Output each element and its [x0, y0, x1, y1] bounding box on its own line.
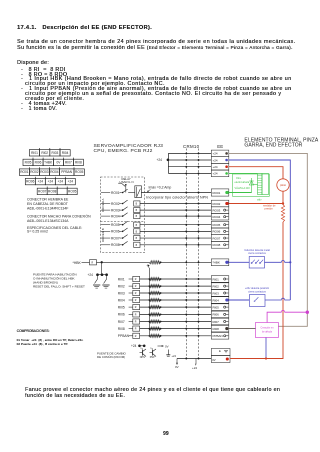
- CPU row RO01: stub, label, switch: [101, 192, 110, 194]
- svg-text:+24: +24: [157, 158, 163, 162]
- EE pin box RO01: [211, 189, 229, 196]
- svg-text:electroválvula: electroválvula: [235, 181, 250, 184]
- svg-text:Creación en: Creación en: [261, 326, 275, 329]
- svg-text:+24: +24: [213, 172, 218, 176]
- svg-text:*HBK: *HBK: [73, 261, 82, 265]
- RI08 pull-up resistor: [149, 327, 160, 330]
- svg-text:RI08: RI08: [118, 327, 125, 331]
- RICOM pull-up bus: [148, 268, 150, 336]
- driver group divider: [101, 221, 145, 223]
- svg-text:válv: válv: [257, 198, 262, 201]
- HBK series box: [90, 260, 97, 265]
- svg-text:RO04: RO04: [213, 215, 221, 219]
- list: [17, 61, 49, 66]
- EE connector face pin grid: [19, 148, 84, 195]
- EE pin box RI06: [211, 311, 229, 318]
- svg-text:0V: 0V: [165, 344, 169, 348]
- svg-text:RO08: RO08: [111, 243, 120, 247]
- svg-text:piloto: piloto: [280, 184, 287, 187]
- RI01 pull-up resistor: [149, 277, 160, 280]
- transistor PNP (comun +24): [152, 350, 154, 356]
- svg-text:CRM10: CRM10: [183, 144, 200, 149]
- wire RO06 to EE: [140, 230, 211, 232]
- svg-text:RO05: RO05: [111, 223, 120, 227]
- svg-text:RI07: RI07: [118, 320, 125, 324]
- svg-text:PPBAN: PPBAN: [213, 334, 223, 338]
- heading: [17, 26, 152, 32]
- svg-text:R: R: [135, 279, 137, 281]
- pressure resistor red: [281, 205, 284, 223]
- svg-text:EE: EE: [217, 144, 223, 149]
- svg-text:RO05: RO05: [213, 223, 221, 227]
- position sensor dashed box: [250, 295, 266, 307]
- svg-text:cierra contactos: cierra contactos: [248, 291, 266, 294]
- solenoid coil hatched: [258, 174, 263, 195]
- CPU row RO08: stub, label, switch: [101, 244, 110, 246]
- relay box: [135, 186, 142, 198]
- presostato box magenta: [256, 323, 279, 338]
- svg-text:+24: +24: [213, 165, 218, 169]
- magenta junction dot: [306, 311, 309, 314]
- solenoid armature: [262, 174, 269, 195]
- fuse box RO07: [134, 235, 140, 240]
- svg-text:R: R: [135, 307, 137, 309]
- wire +24 row 4 (CPU side): [168, 172, 211, 174]
- CPU row RO04: stub, label, switch: [101, 215, 110, 217]
- svg-text:+24: +24: [213, 158, 218, 162]
- svg-text:RO08: RO08: [213, 243, 221, 247]
- svg-text:+24: +24: [58, 180, 64, 184]
- svg-text:B: B: [136, 231, 138, 233]
- svg-text:*HBK: *HBK: [44, 160, 53, 164]
- svg-text:R: R: [135, 293, 137, 295]
- svg-text:+24: +24: [192, 366, 197, 370]
- wire RI03 to EE: [140, 292, 212, 294]
- svg-text:CPU, EMERG. PCB RJ2: CPU, EMERG. PCB RJ2: [94, 148, 153, 154]
- PPBAN pull-up resistor: [149, 334, 160, 337]
- svg-text:RI05: RI05: [213, 305, 220, 309]
- +24 ground stub: [167, 350, 169, 355]
- CPU output driver dashed box: [101, 177, 145, 253]
- wire +24 row 1 (CPU side): [168, 152, 211, 154]
- RI05 pull-up resistor: [149, 306, 160, 309]
- svg-text:B: B: [136, 210, 138, 212]
- svg-text:RO06: RO06: [26, 180, 35, 184]
- svg-text:RO05: RO05: [75, 170, 84, 174]
- svg-text:B: B: [136, 245, 138, 247]
- EE pin box RI05: [211, 304, 229, 311]
- wire RI04 to EE: [140, 299, 212, 301]
- bottom caption: [25, 388, 280, 393]
- EE pin box RI04: [211, 297, 229, 304]
- wire RO07 to EE: [140, 237, 211, 239]
- wire RI02 to EE: [140, 285, 212, 287]
- diode green: [251, 178, 253, 193]
- svg-text:RO01: RO01: [20, 170, 29, 174]
- svg-text:RO03: RO03: [213, 208, 221, 212]
- svg-text:R: R: [92, 263, 94, 265]
- svg-text:CONECTOR MACHO PARA CONEXIÓN: CONECTOR MACHO PARA CONEXIÓN: [27, 214, 91, 219]
- svg-text:RI01: RI01: [118, 277, 125, 281]
- RI06 pull-up resistor: [149, 313, 160, 316]
- svg-text:PPBAN: PPBAN: [118, 334, 130, 338]
- svg-text:B: B: [136, 238, 138, 240]
- svg-text:RI05: RI05: [25, 160, 32, 164]
- svg-text:RO07: RO07: [213, 236, 221, 240]
- EE pin box RI03: [211, 290, 229, 297]
- wire RI06 to EE: [140, 313, 212, 315]
- svg-text:RI03: RI03: [52, 151, 59, 155]
- svg-text:R: R: [135, 322, 137, 324]
- svg-text:RI01: RI01: [31, 151, 38, 155]
- EE pin box RO06: [211, 228, 229, 235]
- svg-text:PNP: PNP: [150, 356, 155, 359]
- svg-text:+24: +24: [213, 152, 218, 156]
- svg-text:RO07: RO07: [111, 236, 120, 240]
- svg-text:RI03: RI03: [213, 291, 220, 295]
- svg-text:+24: +24: [172, 354, 177, 358]
- svg-text:RO01: RO01: [111, 191, 120, 195]
- svg-text:RO02: RO02: [30, 170, 39, 174]
- RI04 pull-up resistor: [149, 298, 160, 301]
- EE pin box RO08: [211, 241, 229, 248]
- svg-text:RI07: RI07: [65, 160, 72, 164]
- EE pin box +24 #3: [211, 163, 229, 170]
- svg-text:RI02: RI02: [41, 151, 48, 155]
- fuse box RO04: [134, 214, 140, 219]
- svg-text:0V: 0V: [212, 358, 216, 362]
- red wire lamp to resistor: [282, 191, 284, 204]
- svg-text:RO03: RO03: [111, 208, 120, 212]
- svg-text:RI06: RI06: [35, 160, 42, 164]
- svg-text:RI07: RI07: [213, 320, 220, 324]
- svg-text:RI04: RI04: [62, 151, 69, 155]
- wire RO08 to EE: [140, 244, 211, 246]
- wire RO01 relay output: [141, 192, 211, 194]
- arrow to RO01 wire: [148, 189, 151, 192]
- HBK junction: [101, 261, 103, 263]
- paragraph: [17, 40, 296, 45]
- fuse box RO03: [134, 208, 140, 213]
- svg-text:RI04: RI04: [118, 298, 125, 302]
- svg-text:RO04: RO04: [111, 214, 120, 218]
- svg-text:NPN: NPN: [140, 356, 145, 359]
- jumper switch 1 with ground: [97, 276, 99, 279]
- svg-text:RI02: RI02: [213, 284, 220, 288]
- svg-text:0V: 0V: [175, 365, 179, 369]
- wire RO02 red: [229, 203, 283, 205]
- transistor NPN (comun 0V): [142, 350, 144, 356]
- sensor1 output to blue bus: [265, 260, 291, 262]
- svg-text:R: R: [135, 300, 137, 302]
- svg-text:presión: presión: [265, 208, 274, 211]
- wire RO05 to EE: [140, 224, 211, 226]
- page number: [163, 432, 169, 437]
- wire HBK blue: [229, 261, 249, 263]
- svg-text:E: E: [219, 349, 221, 353]
- svg-text:RO06: RO06: [111, 230, 120, 234]
- EE pin box RO03: [211, 207, 229, 214]
- +24 down arrow: [195, 359, 197, 365]
- red +24 wire to pilot lamp: [229, 167, 283, 179]
- svg-text:Tip: Tip: [150, 348, 154, 350]
- svg-text:Otra: Otra: [236, 177, 241, 180]
- svg-text:RO06: RO06: [213, 230, 221, 234]
- CPU row RO02: stub, label, switch: [101, 203, 110, 205]
- svg-text:R: R: [135, 336, 137, 338]
- svg-text:PPBAN: PPBAN: [61, 170, 73, 174]
- bus top arrow: [147, 265, 150, 268]
- svg-text:S= 0.25 mm2: S= 0.25 mm2: [27, 230, 48, 234]
- svg-text:+24: +24: [131, 344, 137, 348]
- RI02 pull-up resistor: [149, 285, 160, 288]
- sensor2 output to blue bus: [265, 298, 290, 300]
- CPU row RO03: stub, label, switch: [101, 209, 110, 211]
- 0V down arrow: [176, 359, 178, 364]
- wire RI01 to EE: [140, 278, 212, 280]
- grey +24 wire to presostato: [229, 153, 307, 326]
- CRM10 dashed column 2: [198, 149, 200, 359]
- CPU row RO07: stub, label, switch: [101, 237, 110, 239]
- earth mark in E box: [224, 350, 228, 352]
- EE pin box +24 #4: [211, 170, 229, 177]
- svg-text:0V: 0V: [56, 160, 61, 164]
- svg-text:DRIVER B: DRIVER B: [101, 228, 105, 242]
- svg-text:RI06: RI06: [213, 313, 220, 317]
- wire RI04 blue: [229, 299, 249, 301]
- dark wire RI08 to presostato: [229, 328, 256, 330]
- svg-text:RI08: RI08: [75, 160, 82, 164]
- 0V red pin dot: [226, 357, 229, 360]
- EE pin box RO07: [211, 235, 229, 242]
- svg-text:RO02: RO02: [111, 202, 120, 206]
- RI03 pull-up resistor: [149, 291, 160, 294]
- svg-text:Tip: Tip: [140, 348, 144, 350]
- svg-text:RO07: RO07: [38, 189, 47, 193]
- EE pin box RI08: [211, 325, 229, 332]
- EE pin box *HBK: [211, 259, 229, 266]
- comprobaciones note: [17, 330, 50, 333]
- svg-text:RO03: RO03: [40, 170, 49, 174]
- svg-text:RESET DEL FALLO: SHIFT + RESET: RESET DEL FALLO: SHIFT + RESET: [33, 284, 85, 288]
- wire RI08 to EE: [140, 328, 212, 330]
- svg-text:RI08: RI08: [213, 327, 220, 331]
- svg-text:RI05: RI05: [118, 305, 125, 309]
- EE pin box RO04: [211, 213, 229, 220]
- RO02 red pin dot: [226, 202, 229, 205]
- svg-text:la válvula: la válvula: [262, 331, 273, 334]
- RI07 pull-up resistor: [149, 320, 160, 323]
- svg-text:A63L-0001-E134#SC134A: A63L-0001-E134#SC134A: [27, 219, 69, 223]
- EE pin box RO05: [211, 221, 229, 228]
- jumper switch 2 with ground: [106, 276, 108, 279]
- fuse box RO02: [134, 201, 140, 206]
- svg-text:B: B: [136, 216, 138, 218]
- pilot lamp (piloto): [277, 179, 289, 191]
- svg-text:+24: +24: [68, 180, 74, 184]
- wire RI05 to EE: [140, 306, 212, 308]
- EE pin box RI02: [211, 283, 229, 290]
- svg-text:B: B: [136, 204, 138, 206]
- magenta presostato wire: [267, 310, 307, 322]
- EE pin box E (earth): [211, 349, 230, 356]
- svg-text:R: R: [135, 286, 137, 288]
- presostato blue drop to 0V: [265, 338, 267, 359]
- HBK jumper drop: [101, 262, 103, 274]
- HBK jumper note: [33, 272, 85, 289]
- svg-text:RO08: RO08: [48, 189, 57, 193]
- svg-text:+24: +24: [38, 180, 44, 184]
- svg-text:R: R: [135, 329, 137, 331]
- svg-text:*HBK: *HBK: [213, 261, 220, 265]
- svg-text:+24: +24: [48, 180, 54, 184]
- svg-text:Imáx =0,2 Amp: Imáx =0,2 Amp: [149, 185, 172, 189]
- wire HBK: [97, 261, 150, 263]
- svg-text:RI04: RI04: [213, 298, 220, 302]
- wire +24 row 2 (CPU side): [168, 159, 211, 161]
- blue +24 wire / sensor bus: [229, 160, 290, 300]
- svg-text:GARRA, END EFECTOR: GARRA, END EFECTOR: [244, 143, 302, 149]
- inductive sensor dashed box: [249, 257, 264, 269]
- CPU row RO06: stub, label, switch: [101, 230, 110, 232]
- green +24 wire to solenoid: [229, 172, 258, 174]
- wire RO04 to EE: [140, 215, 211, 217]
- wire RO01 green: [229, 192, 252, 194]
- CPU row RO05: stub, label, switch: [101, 224, 110, 226]
- relay contact upper: [125, 184, 127, 186]
- wire RO02 to EE: [140, 203, 211, 205]
- svg-text:RO04: RO04: [50, 170, 59, 174]
- svg-text:CONECTOR HEMBRA EE: CONECTOR HEMBRA EE: [27, 198, 69, 202]
- EE pin box RI07: [211, 318, 229, 325]
- wire +24 row 3 (CPU side): [168, 166, 211, 168]
- svg-text:RO05: RO05: [68, 189, 77, 193]
- svg-text:RI03: RI03: [118, 291, 125, 295]
- red/orange wire resistor to 0V: [230, 222, 283, 359]
- fuse box RO06: [134, 229, 140, 234]
- EE pin box +24 #1: [211, 150, 229, 157]
- svg-text:DE COMÚN (RICOM): DE COMÚN (RICOM): [97, 355, 125, 359]
- CRM10 dashed column 1: [185, 149, 187, 359]
- wire RI07 to EE: [140, 321, 212, 323]
- svg-text:RI06: RI06: [118, 313, 125, 317]
- svg-text:R: R: [135, 315, 137, 317]
- svg-text:RO02: RO02: [213, 202, 221, 206]
- svg-text:+24: +24: [88, 273, 94, 277]
- wire PPBAN to EE: [140, 335, 212, 337]
- wire RO03 to EE: [140, 209, 211, 211]
- svg-text:Incorporar tipo colector abier: Incorporar tipo colector abierto NPN: [146, 196, 208, 200]
- EE pin box 0V: [211, 356, 230, 363]
- solenoid valve green box: [233, 174, 270, 196]
- svg-text:B: B: [136, 225, 138, 227]
- EE pin box RO02: [211, 200, 229, 207]
- 0V arrow right: [158, 345, 163, 347]
- svg-text:RI01: RI01: [213, 277, 220, 281]
- connector part number notes: [27, 198, 91, 234]
- wire 0V to EE: [177, 358, 211, 360]
- EE pin box +24 #2: [211, 157, 229, 164]
- +24 bus vertical: [167, 153, 169, 173]
- fuse box RO05: [134, 222, 140, 227]
- svg-text:VÁLVULA 24V: VÁLVULA 24V: [235, 187, 251, 190]
- svg-text:cierra contactos: cierra contactos: [248, 252, 266, 255]
- EE pin box PPBAN: [211, 333, 229, 340]
- HBK pull-up resistor: [149, 261, 160, 264]
- EE pin box RI01: [211, 276, 229, 283]
- fuse box RO08: [134, 242, 140, 247]
- svg-text:A63L-0001-E134#RC134F: A63L-0001-E134#RC134F: [27, 206, 68, 210]
- svg-text:RO01: RO01: [213, 191, 221, 195]
- svg-text:RI02: RI02: [118, 284, 125, 288]
